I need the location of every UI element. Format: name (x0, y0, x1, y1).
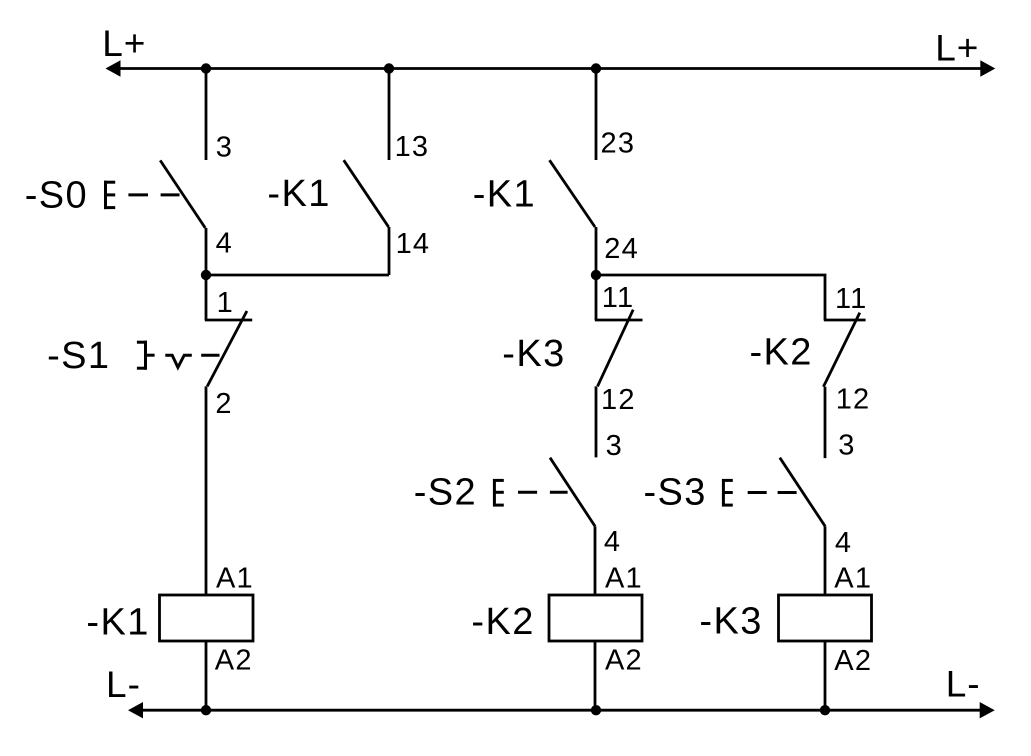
svg-text:12: 12 (601, 384, 636, 416)
svg-text:-S3: -S3 (644, 472, 707, 514)
pushbutton S2 NO contact blade (550, 458, 595, 527)
wire K3 contact to S2 (595, 386, 598, 457)
svg-text:L-: L- (106, 664, 141, 705)
svg-text:A2: A2 (215, 645, 253, 677)
wire branch2 stub terminal 23 (595, 69, 598, 161)
svg-text:-K3: -K3 (699, 600, 762, 642)
svg-text:A1: A1 (834, 563, 872, 595)
S3 actuator pushbutton head (722, 479, 733, 507)
wire K1 aux stub terminal 13 (388, 69, 391, 161)
svg-text:-S2: -S2 (414, 472, 477, 514)
contactor K3 NC contact blade (598, 310, 634, 387)
svg-text:-K1: -K1 (267, 173, 330, 215)
svg-text:11: 11 (602, 282, 635, 314)
svg-text:A1: A1 (216, 562, 254, 594)
S2 actuator pushbutton head (493, 479, 504, 507)
wire S0 lower terminal to junction (205, 228, 208, 320)
svg-text:-S0: -S0 (25, 174, 88, 216)
coil K3 (779, 595, 872, 641)
svg-text:11: 11 (835, 283, 868, 315)
svg-text:14: 14 (396, 228, 431, 260)
svg-text:L+: L+ (102, 23, 146, 64)
arrow right L- (980, 702, 995, 718)
svg-text:-S1: -S1 (47, 335, 110, 377)
arrow left L- (128, 702, 143, 718)
wire bottom rail (140, 709, 983, 712)
svg-text:4: 4 (216, 227, 233, 259)
coil K2 (549, 595, 642, 641)
svg-text:-K1: -K1 (86, 601, 149, 643)
junction dot bottom branch3 (820, 705, 830, 715)
svg-text:23: 23 (601, 128, 636, 160)
contactor K2 NC contact blade (823, 313, 859, 387)
wire S1 to coil K1 (205, 386, 208, 595)
svg-text:A2: A2 (834, 645, 872, 677)
svg-text:A1: A1 (605, 562, 643, 594)
junction dot top branch1 (201, 63, 211, 73)
svg-text:4: 4 (604, 526, 621, 558)
junction dot bottom branch2 (591, 705, 601, 715)
svg-text:-K2: -K2 (750, 332, 813, 374)
switch S1 NC contact blade (207, 311, 247, 386)
pushbutton S3 NO contact blade (780, 458, 825, 527)
node L- rail (106, 663, 995, 718)
S0 actuator dashed link (128, 193, 179, 196)
junction dot node B (591, 270, 601, 280)
wire K1 aux 24 to junction B (595, 227, 598, 320)
S1 actuator dashed link with detent (165, 355, 219, 367)
S1 actuator latching head (137, 341, 155, 370)
node L+ rail (102, 23, 995, 77)
svg-text:L-: L- (946, 663, 981, 704)
svg-text:-K1: -K1 (473, 174, 536, 216)
contactor K3 NC contact bar (595, 319, 643, 322)
svg-text:3: 3 (216, 132, 233, 164)
switch S1 NC contact bar (205, 319, 252, 322)
wire S2 to coil K2 (594, 526, 597, 595)
coil K1 (160, 595, 254, 641)
wire junction B to branch3 (596, 275, 825, 320)
junction dot top K1 aux (384, 63, 394, 73)
svg-text:L+: L+ (935, 28, 979, 69)
pushbutton S0 NO contact blade (160, 160, 205, 228)
junction dot bottom branch1 (201, 705, 211, 715)
arrow right L+ (980, 60, 995, 76)
contactor K1 NO auxiliary contact blade (23-24) (550, 160, 596, 227)
junction dot node A (201, 270, 211, 280)
wire top rail (117, 67, 983, 70)
svg-text:3: 3 (838, 429, 855, 461)
svg-text:4: 4 (835, 527, 852, 559)
S0 actuator pushbutton head (104, 181, 115, 209)
svg-text:3: 3 (606, 430, 623, 462)
svg-text:2: 2 (215, 388, 232, 420)
svg-text:A2: A2 (605, 645, 643, 677)
wire K2 contact to S3 (824, 387, 827, 458)
wire K3 coil to L- (824, 641, 827, 710)
contactor K1 NO auxiliary contact blade (344, 160, 389, 227)
wire K1 aux lower terminal to junction A (388, 227, 391, 275)
S2 actuator dashed link (518, 491, 568, 494)
svg-text:24: 24 (604, 233, 639, 265)
wire junction A to K1 aux contact (206, 274, 389, 277)
S3 actuator dashed link (748, 491, 797, 494)
svg-text:-K3: -K3 (502, 333, 565, 375)
svg-text:13: 13 (395, 131, 430, 163)
wire K2 coil to L- (594, 641, 597, 710)
contactor K2 NC contact bar (824, 319, 866, 322)
svg-text:1: 1 (217, 287, 234, 319)
svg-text:12: 12 (836, 384, 871, 416)
junction dot top branch2 (591, 63, 601, 73)
svg-text:-K2: -K2 (471, 601, 534, 643)
arrow left L+ (106, 60, 121, 76)
wire branch1 stub terminal 3 (205, 69, 208, 161)
wire K1 coil to L- (205, 641, 208, 710)
wire S3 to coil K3 (824, 526, 827, 595)
